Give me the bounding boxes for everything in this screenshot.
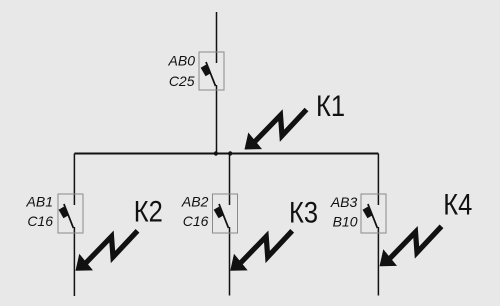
svg-text:АВ2: АВ2 <box>181 193 209 209</box>
svg-text:С16: С16 <box>27 213 53 229</box>
wire: right branch lower <box>377 227 379 296</box>
svg-text:К4: К4 <box>443 188 472 221</box>
svg-text:С16: С16 <box>183 213 209 229</box>
short-circuit arrow K2 <box>76 231 138 271</box>
svg-text:К1: К1 <box>316 89 345 122</box>
circuit breaker AB1 (АВ1 C16) box <box>58 194 83 233</box>
circuit breaker AB0 (АВ0 C25) box <box>199 52 224 90</box>
short-circuit arrow K3 <box>230 231 292 271</box>
wire: left branch lower <box>73 227 75 296</box>
circuit breaker AB3 (АВ3 B10) release flag <box>363 207 373 219</box>
junction node dot left <box>214 151 218 155</box>
svg-text:К3: К3 <box>289 196 318 229</box>
circuit breaker AB1 (АВ1 C16) blade <box>64 204 74 228</box>
svg-text:К2: К2 <box>134 195 163 228</box>
svg-text:С25: С25 <box>169 73 195 89</box>
short-circuit arrow K1 <box>245 110 307 150</box>
wire: left branch upper <box>73 154 75 206</box>
circuit breaker AB2 (АВ2 C16) release flag <box>214 207 224 219</box>
wire: middle branch lower <box>229 227 231 296</box>
svg-text:АВ1: АВ1 <box>26 193 53 209</box>
wire: middle branch upper <box>229 154 231 206</box>
short-circuit arrow K4 <box>380 226 442 266</box>
svg-text:В10: В10 <box>333 214 358 230</box>
circuit breaker AB3 (АВ3 B10) box <box>361 194 386 233</box>
junction node dot right <box>228 151 232 155</box>
wire: horizontal bus <box>74 153 378 155</box>
circuit breaker AB1 (АВ1 C16) release flag <box>59 207 69 219</box>
circuit breaker AB0 (АВ0 C25) blade <box>206 62 216 86</box>
svg-text:АВ0: АВ0 <box>168 53 196 69</box>
circuit breaker AB3 (АВ3 B10) blade <box>368 204 378 228</box>
circuit breaker AB0 (АВ0 C25) release flag <box>201 65 211 77</box>
circuit breaker AB2 (АВ2 C16) box <box>213 194 238 233</box>
wire: top feed lower segment to bus <box>216 85 218 154</box>
wire: right branch upper <box>377 154 379 206</box>
wire: top feed upper segment <box>216 12 218 63</box>
svg-text:АВ3: АВ3 <box>330 194 358 210</box>
circuit breaker AB2 (АВ2 C16) blade <box>219 204 229 228</box>
